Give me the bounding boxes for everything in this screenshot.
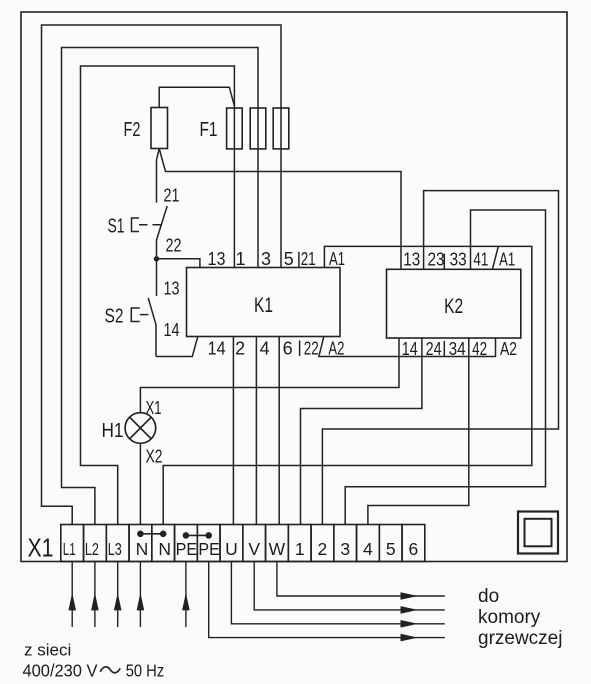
svg-text:PE: PE xyxy=(176,539,198,559)
svg-text:14: 14 xyxy=(402,339,418,359)
wire K2 pin 14 to lamp H1 X1 xyxy=(140,338,399,413)
svg-text:N: N xyxy=(136,539,149,559)
switch S2 blade (NO) xyxy=(148,298,156,357)
wire K2 pin 41 to terminal 3 xyxy=(345,210,545,525)
wire L2 (terminal L2 to fuse F1b to K1 pin 3) xyxy=(62,48,259,525)
wire F2 bottom to K2 pin 13 xyxy=(159,149,401,270)
wire K2 pin 42 to terminal 4 xyxy=(368,338,469,525)
wire junction to K1 pin 13 xyxy=(157,259,200,268)
svg-text:22: 22 xyxy=(166,236,182,256)
svg-text:A1: A1 xyxy=(329,249,345,269)
input arrow N xyxy=(137,562,145,628)
svg-text:L1: L1 xyxy=(63,539,76,559)
stub K2 pin 34 xyxy=(443,341,445,357)
svg-text:L2: L2 xyxy=(85,539,99,559)
svg-text:L3: L3 xyxy=(108,539,122,559)
svg-text:4: 4 xyxy=(260,339,270,359)
svg-text:komory: komory xyxy=(478,607,541,628)
output arrow from PE xyxy=(209,562,445,642)
wire K1 pin A1 to right side down to terminal N xyxy=(163,246,532,524)
link N-N bridge xyxy=(138,531,166,537)
wire L3 (terminal L3 to fuse F1a to K1 pin 1) xyxy=(81,66,235,525)
svg-text:13: 13 xyxy=(403,250,420,270)
wire F2 top branch (joins L3 wire above fuse F1a) xyxy=(159,87,234,107)
fuse F1a xyxy=(227,108,243,149)
svg-text:3: 3 xyxy=(340,539,350,559)
link PE-PE bridge xyxy=(183,533,211,539)
switch S2 wire from junction to contact 13 xyxy=(156,259,158,296)
svg-text:S2: S2 xyxy=(105,305,124,327)
svg-text:W: W xyxy=(269,539,286,559)
stub K1 pin 22 xyxy=(299,341,301,357)
terminal strip X1 xyxy=(61,525,425,562)
enclosure symbol xyxy=(518,512,558,554)
fuse F1b xyxy=(250,108,266,149)
stub K2 pin 33 xyxy=(443,254,445,270)
svg-text:34: 34 xyxy=(449,339,466,359)
wire K2 pin 23 to terminal 2 xyxy=(322,191,558,525)
input arrow L2 xyxy=(91,562,99,628)
svg-text:4: 4 xyxy=(363,539,373,559)
wire K1 pin 2 to terminal U xyxy=(232,337,234,525)
svg-text:F1: F1 xyxy=(200,119,218,141)
output arrow from W xyxy=(277,562,445,600)
svg-text:6: 6 xyxy=(409,539,419,559)
svg-text:13: 13 xyxy=(164,278,180,298)
wire L1 (terminal L1 up left frame, across top, down through fuse F1c to K1 pin 5) xyxy=(42,25,282,525)
input arrow PE xyxy=(182,562,190,628)
wire S2 pin 14 to K1 pin 14 xyxy=(156,337,198,357)
svg-text:A2: A2 xyxy=(500,339,517,359)
svg-text:z sieci: z sieci xyxy=(24,641,71,660)
wire K2 pin A1 diagonal xyxy=(492,246,498,269)
svg-text:1: 1 xyxy=(235,249,245,269)
svg-text:21: 21 xyxy=(301,249,316,269)
switch S1 blade (NC) xyxy=(157,206,168,259)
output arrow from U xyxy=(231,562,444,628)
wire K2 pin 24 to terminal 1 xyxy=(301,338,422,525)
svg-text:K1: K1 xyxy=(254,294,273,317)
AC wave symbol xyxy=(100,667,120,673)
svg-text:N: N xyxy=(158,539,171,559)
svg-text:41: 41 xyxy=(473,250,488,270)
svg-text:24: 24 xyxy=(426,339,442,359)
switch S1 actuator E xyxy=(132,218,140,232)
svg-text:U: U xyxy=(225,539,238,559)
svg-text:K2: K2 xyxy=(444,295,463,318)
output arrow from V xyxy=(254,562,445,614)
svg-text:6: 6 xyxy=(283,339,293,359)
svg-text:2: 2 xyxy=(235,339,245,359)
input arrow L1 xyxy=(68,562,76,628)
svg-text:5: 5 xyxy=(284,249,294,269)
svg-text:grzewczej: grzewczej xyxy=(478,628,562,649)
wire lamp H1 X2 to terminal N xyxy=(139,443,141,524)
wire K1 pin A2 to K2 pin A2 xyxy=(319,337,496,357)
svg-text:A1: A1 xyxy=(499,250,515,270)
border frame xyxy=(21,12,567,562)
svg-text:do: do xyxy=(478,586,499,607)
svg-text:13: 13 xyxy=(208,249,226,269)
svg-text:F2: F2 xyxy=(124,119,141,141)
svg-text:V: V xyxy=(248,539,260,559)
svg-text:2: 2 xyxy=(318,539,328,559)
svg-text:23: 23 xyxy=(428,250,445,270)
svg-text:50 Hz: 50 Hz xyxy=(126,660,165,680)
stub K1 pin 21 xyxy=(298,252,300,268)
svg-text:21: 21 xyxy=(164,185,180,205)
svg-text:400/230 V: 400/230 V xyxy=(23,660,98,680)
svg-text:22: 22 xyxy=(304,339,319,359)
wire K1 pin 4 to terminal V xyxy=(255,337,257,525)
svg-text:X1: X1 xyxy=(28,533,54,563)
svg-text:PE: PE xyxy=(198,539,220,559)
contactor K1 xyxy=(187,268,341,337)
contactor K2 xyxy=(387,269,521,338)
svg-text:14: 14 xyxy=(208,339,226,359)
svg-text:X2: X2 xyxy=(146,447,163,467)
svg-text:H1: H1 xyxy=(102,420,124,442)
lamp H1 xyxy=(125,413,156,444)
svg-text:1: 1 xyxy=(295,539,305,559)
svg-text:33: 33 xyxy=(450,250,467,270)
svg-text:5: 5 xyxy=(386,539,396,559)
input arrow L3 xyxy=(114,562,122,628)
svg-text:42: 42 xyxy=(472,339,487,359)
fuse F1c xyxy=(273,108,289,149)
wire F2 bottom to switch S1 xyxy=(157,149,160,203)
wire K1 pin 6 to terminal W xyxy=(278,337,280,525)
svg-text:14: 14 xyxy=(164,320,180,340)
svg-text:S1: S1 xyxy=(108,215,125,237)
svg-text:3: 3 xyxy=(261,249,271,269)
svg-text:A2: A2 xyxy=(328,339,344,359)
node junction S1-22 / S2-13 / K1-13 xyxy=(154,256,159,261)
fuse F2 xyxy=(151,108,168,149)
switch S2 actuator E xyxy=(131,308,140,322)
svg-text:X1: X1 xyxy=(146,398,162,418)
